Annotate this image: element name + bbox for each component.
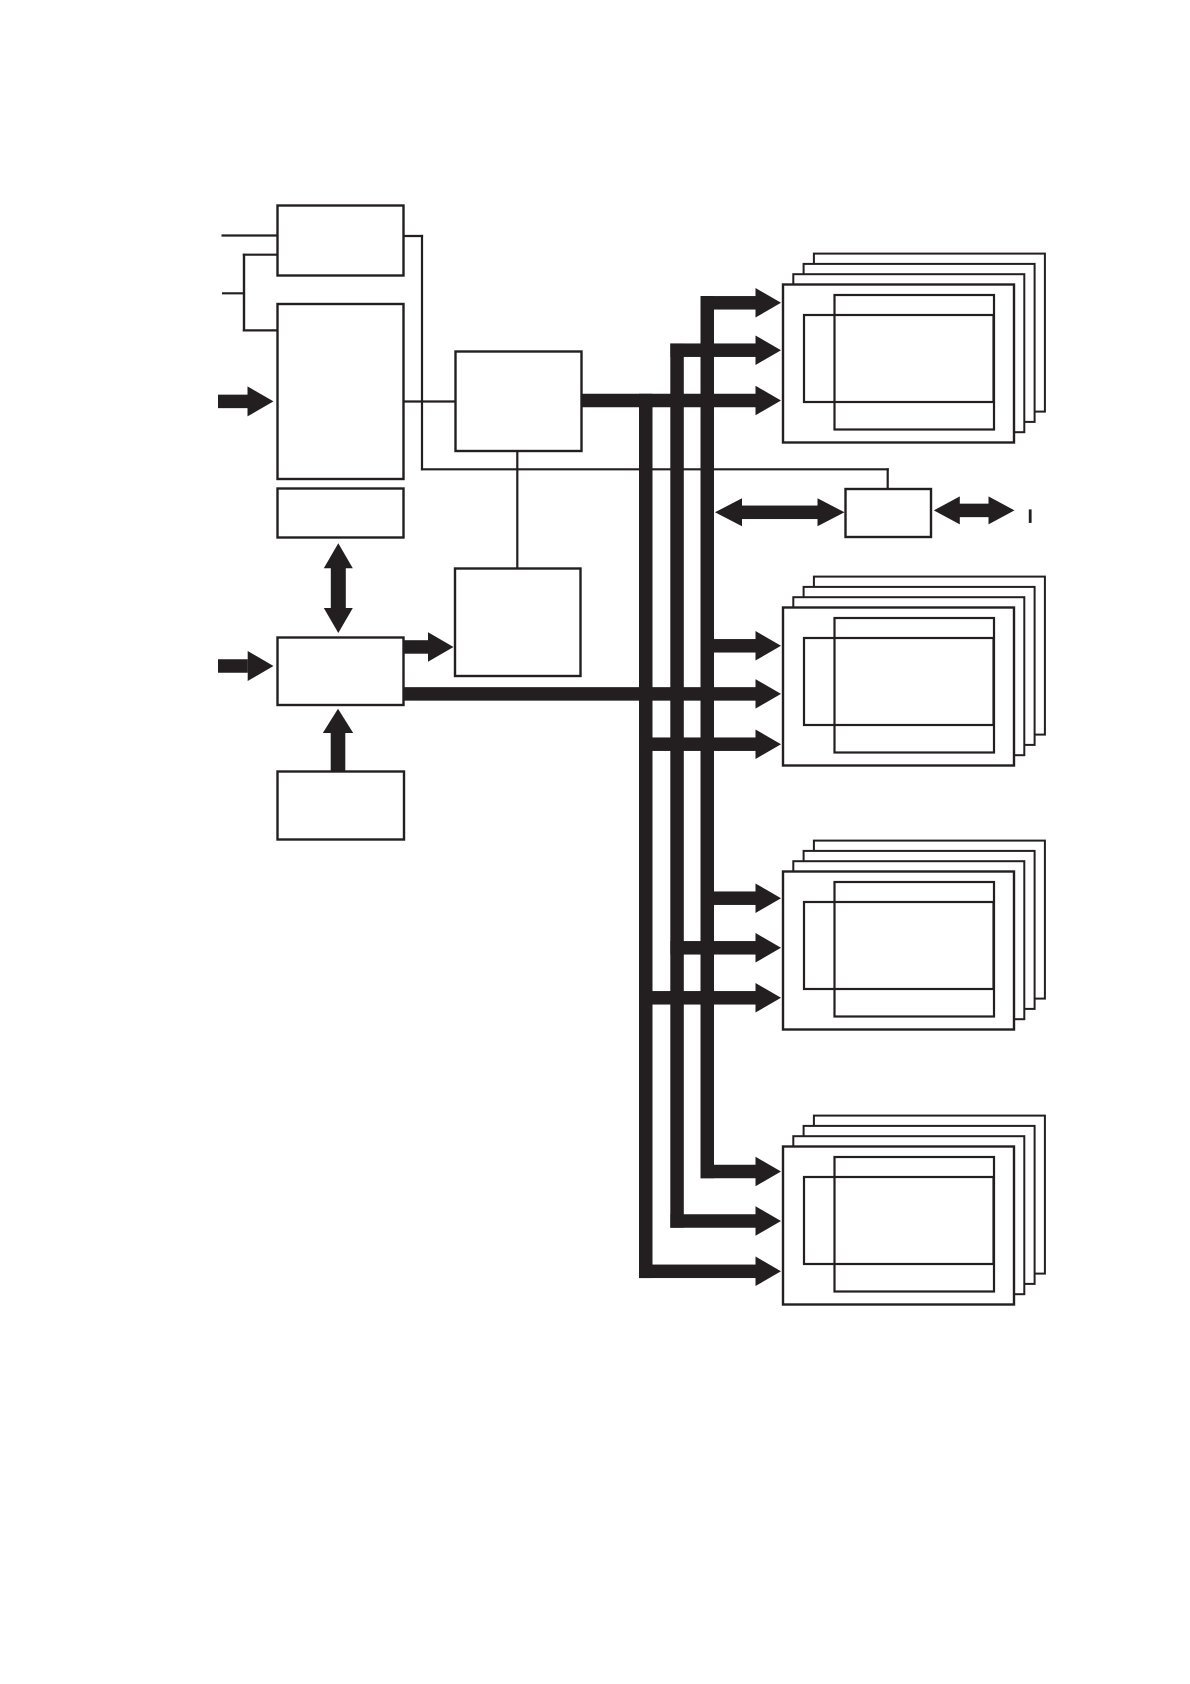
- wire: input stub into bracket: [222, 292, 245, 294]
- bus bar B (middle vertical trunk): [670, 343, 684, 1227]
- double arrow between ROM box and CPU box: [324, 543, 353, 633]
- display stack group 1: [783, 254, 1045, 443]
- box: ROM: [278, 489, 404, 538]
- arrow CPU box to processor box: [402, 632, 454, 662]
- display stack group 3: [783, 841, 1045, 1030]
- box: processor: [455, 569, 581, 677]
- display stack group 4: [783, 1116, 1045, 1305]
- wire: tall box to converter box: [403, 400, 457, 402]
- wire: bracket upper branch to top-left box: [243, 254, 279, 256]
- bus arrow: group4 line3 (bar A terminal elbow): [639, 1257, 781, 1287]
- box: interface: [846, 489, 932, 537]
- box: converter: [456, 352, 582, 452]
- display stack group 2: [783, 577, 1045, 766]
- up arrow from RAM box to CPU box: [323, 709, 353, 773]
- wire: top box output vertical run: [421, 235, 423, 471]
- double arrow bar C to interface box: [715, 498, 845, 526]
- wire: converter box down to processor box: [516, 451, 518, 570]
- wire: long horizontal run to interface box: [421, 468, 889, 470]
- input arrow into tall box: [218, 386, 274, 416]
- bus arrow: group1 line2 (from bar B elbow): [670, 335, 781, 365]
- bus arrow: group3 line2 (from bar B): [670, 933, 781, 963]
- bus arrow: group2 line3 (from bar A): [639, 729, 781, 759]
- input arrow into CPU box: [218, 651, 274, 681]
- bus bar A (leftmost vertical trunk): [639, 394, 653, 1278]
- wire: left bracket vertical: [243, 254, 245, 332]
- box: tall generator: [278, 304, 404, 479]
- bus arrow: group1 line1 (from bar C elbow): [701, 288, 782, 318]
- box: top-left controller: [278, 206, 404, 276]
- double arrow interface box to external: [934, 496, 1015, 524]
- bus arrow: group4 line1 (bar C terminal elbow): [701, 1157, 782, 1187]
- wire: input stub to top-left box: [222, 234, 279, 236]
- wire: bracket lower branch to tall box: [243, 329, 279, 331]
- box: CPU: [278, 638, 404, 706]
- bus arrow: group3 line3 (from bar A): [639, 983, 781, 1013]
- box: RAM: [278, 772, 405, 840]
- bus arrow: group1 line3 (main bus from converter box): [579, 386, 781, 416]
- wire: drop into interface box top: [887, 468, 889, 490]
- bus arrow: group2 line2 (bus from CPU box): [402, 679, 781, 709]
- external port tick mark: [1029, 509, 1032, 523]
- bus bar C (rightmost vertical trunk): [701, 296, 715, 1178]
- bus arrow: group4 line2 (bar B terminal elbow): [670, 1206, 781, 1236]
- bus arrow: group2 line1 (from bar C): [701, 631, 782, 661]
- wire: top box output horizontal: [403, 235, 423, 237]
- bus arrow: group3 line1 (from bar C): [701, 883, 782, 913]
